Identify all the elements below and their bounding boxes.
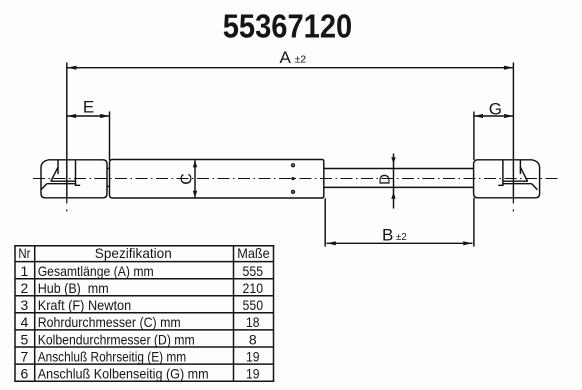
svg-text:Spezifikation: Spezifikation <box>95 245 172 261</box>
right end fitting (eyelet, mirrored) <box>474 160 540 198</box>
horizontal centerline (axis) <box>33 178 558 180</box>
svg-text:19: 19 <box>246 348 260 364</box>
svg-text:4: 4 <box>21 314 29 330</box>
piston rod top edge <box>324 168 474 170</box>
svg-text:E: E <box>83 98 94 117</box>
dimension line B <box>327 242 473 244</box>
svg-text:±2: ±2 <box>396 232 407 243</box>
svg-text:550: 550 <box>243 297 264 313</box>
svg-text:19: 19 <box>246 366 260 382</box>
svg-text:3: 3 <box>21 297 29 313</box>
arrow E left <box>67 114 76 118</box>
arrow D top <box>391 157 395 164</box>
svg-text:2: 2 <box>21 280 29 296</box>
extension line B left (tube end) <box>324 198 326 246</box>
svg-text:Nr: Nr <box>18 245 30 261</box>
centerline below left fitting <box>66 199 68 212</box>
svg-text:18: 18 <box>246 314 260 330</box>
dimension line E <box>67 115 110 117</box>
svg-text:Rohrdurchmesser (C) mm: Rohrdurchmesser (C) mm <box>38 314 181 330</box>
dimension D line through rod <box>393 154 395 209</box>
svg-text:Gesamtlänge (A) mm: Gesamtlänge (A) mm <box>38 263 154 279</box>
arrow D bottom <box>391 192 395 199</box>
svg-text:Hub (B) mm: Hub (B) mm <box>38 280 109 296</box>
svg-text:6: 6 <box>21 366 29 382</box>
svg-text:B: B <box>382 225 393 244</box>
svg-text:G: G <box>489 99 502 118</box>
arrow G right <box>504 114 513 118</box>
svg-text:C: C <box>179 173 196 185</box>
extension line B right (fitting edge) <box>473 198 475 247</box>
piston rod bottom edge <box>324 186 474 188</box>
tube (cylinder) <box>110 160 324 199</box>
stud between left fitting and tube, bottom <box>107 185 111 187</box>
label A±2 <box>280 48 307 67</box>
svg-text:Kolbendurchrmesser (D) mm: Kolbendurchrmesser (D) mm <box>38 331 195 347</box>
arrow A right <box>504 66 513 70</box>
centerline below right fitting <box>512 199 514 212</box>
extension line E right (tube left end) <box>109 112 111 161</box>
label B±2 <box>382 225 407 244</box>
svg-text:55367120: 55367120 <box>223 8 353 45</box>
svg-text:A: A <box>280 48 292 67</box>
crimp dot middle (on axis) <box>291 177 294 180</box>
arrow C bottom <box>193 191 197 198</box>
svg-text:7: 7 <box>21 348 29 364</box>
svg-text:Kraft (F) Newton: Kraft (F) Newton <box>38 297 132 313</box>
svg-text:5: 5 <box>21 331 29 347</box>
dimension C line inside tube <box>194 160 196 198</box>
arrow A left <box>67 66 76 70</box>
svg-text:Anschluß Kolbenseitig (G) mm: Anschluß Kolbenseitig (G) mm <box>38 366 209 382</box>
crimp dot bottom <box>292 191 295 194</box>
left end fitting (eyelet) <box>41 160 107 198</box>
arrow B right <box>463 241 472 245</box>
dimension line G <box>474 115 514 117</box>
svg-text:555: 555 <box>243 263 264 279</box>
svg-text:8: 8 <box>249 331 257 347</box>
svg-text:±2: ±2 <box>295 55 307 66</box>
table text <box>18 245 270 382</box>
arrow B left <box>327 241 336 245</box>
svg-text:D: D <box>377 174 394 185</box>
extension line left (A/E, through left eye center) <box>66 63 68 199</box>
arrow E right <box>100 114 109 118</box>
svg-text:Anschluß Rohrseitig (E) mm: Anschluß Rohrseitig (E) mm <box>38 348 187 364</box>
specification table grid <box>14 246 274 381</box>
dimension line A <box>67 67 513 69</box>
crimp dot top <box>292 164 295 167</box>
arrow C top <box>193 161 197 168</box>
svg-text:Maße: Maße <box>237 245 270 261</box>
arrow G left <box>474 114 483 118</box>
extension line G left above fitting <box>473 112 475 161</box>
stud between left fitting and tube, top <box>107 167 111 169</box>
svg-text:210: 210 <box>243 280 264 296</box>
extension line right (A/G) <box>512 63 514 199</box>
svg-text:1: 1 <box>21 263 29 279</box>
